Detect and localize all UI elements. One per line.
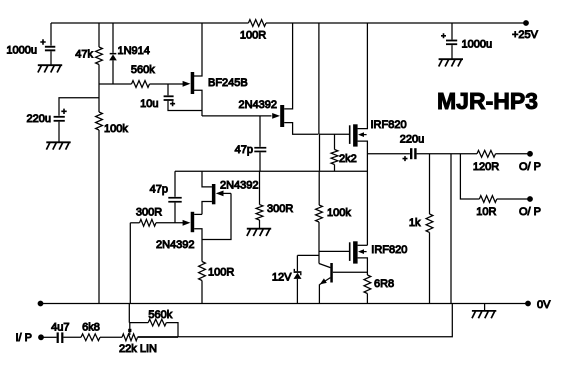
- polarity + (1000u left): [40, 39, 45, 44]
- wire 100k right to gate node: [318, 222, 320, 264]
- node pot wiper junction: [128, 329, 131, 332]
- node 0V left terminal: [38, 301, 44, 307]
- wire 0V rail: [41, 303, 529, 305]
- svg-text:0V: 0V: [537, 299, 551, 311]
- wire 300R to C gate: [156, 222, 183, 224]
- wire 560k to BF245B gate: [150, 83, 184, 85]
- wire bootstrap to B gate: [202, 193, 231, 239]
- label 300R (gate): [136, 207, 162, 219]
- wire branch to 220u: [59, 98, 99, 116]
- label 12V: [272, 271, 292, 283]
- wire wiper to 560k: [129, 322, 148, 324]
- wire IRF820 lower source lead: [358, 258, 368, 275]
- label IRF820 upper: [371, 119, 407, 131]
- capacitor 47p (miller) plates: [254, 147, 266, 152]
- ground (below left 1000u): [38, 65, 62, 72]
- label 2N4392 A: [238, 99, 277, 111]
- label 1000u (right): [462, 38, 493, 50]
- svg-text:6k8: 6k8: [82, 321, 100, 333]
- capacitor 47p (cascode) plates: [168, 197, 181, 203]
- svg-text:47p: 47p: [235, 144, 253, 156]
- resistor 100R (supply rail): [248, 20, 266, 27]
- diode 1N914: [109, 53, 117, 61]
- label 22k LIN: [119, 343, 157, 355]
- wire 2N4392 C drain lead: [194, 213, 202, 215]
- node +25V terminal: [523, 20, 529, 26]
- wire 120R to output terminal: [496, 153, 531, 155]
- svg-text:10R: 10R: [476, 206, 496, 218]
- resistor 560k (bias): [132, 81, 150, 88]
- wire Q1 emitter to 0V: [318, 284, 320, 303]
- resistor 6R8: [364, 275, 371, 294]
- capacitor 1000u (right) plates: [446, 40, 457, 46]
- jfet 2N4392 B: [212, 184, 216, 204]
- polarity + (10u): [170, 101, 175, 106]
- label I/P: [16, 332, 33, 344]
- mosfet IRF820 lower: [349, 241, 358, 263]
- jfet 2N4392 A: [280, 105, 284, 127]
- wire 300R left: [130, 222, 139, 224]
- label 100R (source): [208, 266, 234, 278]
- pin gate arrow 2N4392 A: [272, 113, 280, 119]
- pin emitter arrow Q1: [320, 278, 327, 284]
- wire 6R8 bottom: [366, 294, 368, 304]
- label 1k: [409, 217, 421, 229]
- capacitor 47p (cascode) bottom wire: [174, 203, 176, 223]
- wire 2N4392 B gate wire: [223, 192, 232, 194]
- label O/P upper: [519, 161, 541, 173]
- polarity + (1000u right): [441, 33, 446, 38]
- label 4u7: [51, 321, 69, 333]
- label 120R: [473, 161, 499, 173]
- wire input to 4u7: [41, 336, 57, 338]
- wire Q1 collector: [319, 264, 330, 268]
- wire ground stub: [484, 304, 486, 311]
- svg-text:47p: 47p: [150, 183, 168, 195]
- resistor 100R (source): [199, 262, 206, 281]
- jfet 2N4392 C: [191, 212, 195, 232]
- capacitor 10u plates: [164, 95, 174, 101]
- svg-text:I/ P: I/ P: [16, 332, 33, 344]
- svg-text:220u: 220u: [27, 113, 51, 125]
- wire IRF820 upper drain lead: [358, 23, 368, 129]
- potentiometer 22k LIN track: [122, 334, 138, 341]
- wire 560k to pot end: [166, 323, 178, 337]
- wire BF245B source to 2N4392 gate: [202, 115, 272, 117]
- wire Q1 emitter: [320, 278, 331, 285]
- svg-text:2k2: 2k2: [339, 153, 357, 165]
- svg-text:300R: 300R: [136, 207, 162, 219]
- capacitor 4u7 plates: [57, 332, 64, 343]
- pin body arrow IRF820 upper: [358, 132, 367, 137]
- label 1000u (left): [6, 45, 37, 57]
- label BF245B: [208, 77, 248, 89]
- resistor 1k: [426, 214, 433, 232]
- wire 2N4392 A source lead: [284, 123, 318, 135]
- wire 220u to 120R: [417, 153, 477, 155]
- polarity + (220u output): [403, 156, 408, 161]
- pin gate arrow 2N4392 C: [183, 220, 191, 226]
- wire 4u7 to 6k8: [63, 336, 81, 338]
- svg-text:100k: 100k: [327, 207, 351, 219]
- svg-text:22k LIN: 22k LIN: [119, 343, 157, 355]
- wire output node rail: [175, 170, 367, 172]
- resistor 300R (ground ref): [256, 205, 263, 220]
- wire 300R vert bottom: [259, 220, 261, 229]
- wire 1000u left cap to ground: [50, 51, 52, 65]
- label 10u: [140, 98, 158, 110]
- label O/P lower: [519, 206, 541, 218]
- node 0V right terminal: [525, 301, 531, 307]
- capacitor 47p (miller) top wire: [259, 116, 261, 147]
- svg-text:100k: 100k: [104, 123, 128, 135]
- svg-text:120R: 120R: [473, 161, 499, 173]
- wire pot wiper riser to 300R: [129, 223, 130, 323]
- label 10R: [476, 206, 496, 218]
- label title MJR-HP3: [437, 88, 538, 114]
- svg-text:O/ P: O/ P: [519, 161, 541, 173]
- capacitor 220u (left) plates: [54, 116, 65, 122]
- resistor 6k8: [81, 334, 100, 341]
- wire 1000u right top: [451, 23, 453, 40]
- wire 100R mid top: [201, 240, 203, 262]
- wire 47k bottom / node A: [98, 65, 100, 113]
- wire gate wire to IRF820 upper: [319, 133, 349, 135]
- wire 2N4392 B source lead: [202, 202, 212, 215]
- label 0V: [537, 299, 551, 311]
- ground (below right 1000u): [439, 59, 463, 66]
- wire zener top: [297, 255, 319, 271]
- svg-text:+25V: +25V: [512, 29, 539, 41]
- svg-text:100R: 100R: [208, 266, 234, 278]
- svg-text:2N4392: 2N4392: [156, 239, 195, 251]
- polarity + (220u left): [61, 109, 66, 114]
- svg-text:12V: 12V: [272, 271, 292, 283]
- ground (below 300R): [247, 229, 271, 236]
- svg-text:2N4392: 2N4392: [220, 180, 259, 192]
- svg-text:MJR-HP3: MJR-HP3: [437, 88, 538, 114]
- wire Q1 base to 6R8 top: [333, 271, 368, 273]
- label 100k (right): [327, 207, 351, 219]
- resistor 47k: [96, 47, 103, 65]
- wire feedback from output: [138, 154, 453, 337]
- mosfet IRF820 upper: [349, 124, 358, 146]
- svg-text:560k: 560k: [131, 64, 155, 76]
- wire 1000u right bottom: [451, 45, 453, 59]
- wire BF245B source lead: [194, 90, 202, 116]
- label 220u (left): [27, 113, 51, 125]
- wire branch to 10R: [460, 154, 479, 199]
- label +25V: [512, 29, 539, 41]
- wire 10u bottom to source: [168, 101, 202, 111]
- wire node A to 560k: [99, 83, 132, 85]
- svg-text:1000u: 1000u: [462, 38, 493, 50]
- wire 47k top: [98, 23, 100, 47]
- label 300R (ground ref): [267, 203, 293, 215]
- wire 1000u left cap to rail: [50, 23, 52, 46]
- wire zener bottom: [296, 279, 298, 304]
- capacitor 1000u (left) plates: [45, 46, 55, 52]
- wire IRF820 upper source lead: [358, 141, 368, 245]
- svg-text:220u: 220u: [400, 134, 424, 146]
- svg-text:2N4392: 2N4392: [238, 99, 277, 111]
- svg-text:IRF820: IRF820: [371, 244, 407, 256]
- label 47p (cascode): [150, 183, 168, 195]
- wire 100R mid bottom: [201, 281, 203, 304]
- svg-text:4u7: 4u7: [51, 321, 69, 333]
- diode zener 12V: [294, 269, 302, 279]
- transistor Q1 base bar: [330, 263, 333, 283]
- pin gate arrow 2N4392 B: [216, 191, 224, 197]
- resistor 2k2: [331, 150, 338, 165]
- svg-text:560k: 560k: [148, 309, 172, 321]
- label 560k (bias): [131, 64, 155, 76]
- jfet BF245B: [191, 72, 195, 94]
- wire 100k right pull-up from rail: [318, 23, 321, 205]
- ground (0V rail): [472, 311, 496, 318]
- wire 2N4392 A drain lead: [284, 23, 292, 109]
- resistor 100k (left): [96, 112, 103, 130]
- wire 2N4392 B drain lead: [202, 171, 212, 187]
- wire BF245B drain lead: [194, 23, 202, 76]
- svg-text:1N914: 1N914: [118, 45, 150, 57]
- capacitor 47p (cascode) top wire: [174, 171, 176, 197]
- label 47k: [75, 49, 93, 61]
- wire 300R vert top: [259, 171, 261, 204]
- ground (below left 220u): [46, 142, 70, 149]
- wire 1k top: [429, 154, 431, 214]
- label 100k (left): [104, 123, 128, 135]
- capacitor 47p (miller) bottom wire: [259, 152, 261, 171]
- svg-text:1000u: 1000u: [6, 45, 37, 57]
- wire 6k8 to pot: [100, 336, 122, 338]
- wire 10R to output terminal: [497, 198, 530, 200]
- label IRF820 lower: [371, 244, 407, 256]
- capacitor 220u (output) plates: [410, 148, 417, 159]
- label 220u (output): [400, 134, 424, 146]
- svg-text:100R: 100R: [240, 29, 266, 41]
- wire 10u top: [167, 84, 169, 95]
- label 2N4392 C: [156, 239, 195, 251]
- wire 1N914 bottom: [112, 60, 114, 84]
- label 6R8: [374, 278, 394, 290]
- svg-text:300R: 300R: [267, 203, 293, 215]
- label 2N4392 B: [220, 180, 259, 192]
- svg-text:1k: 1k: [409, 217, 421, 229]
- label 47p (miller): [235, 144, 253, 156]
- resistor 560k (law-faking): [148, 319, 166, 326]
- node I/P terminal: [38, 334, 44, 340]
- svg-text:10u: 10u: [140, 98, 158, 110]
- wire IRF820 lower gate wire: [319, 250, 349, 252]
- wire 220u left to ground: [58, 122, 60, 143]
- wire 2N4392 C source lead: [194, 229, 202, 240]
- wire pot right to feedback: [138, 336, 179, 338]
- label 2k2: [339, 153, 357, 165]
- wire 2k2 bottom: [334, 165, 336, 172]
- label 100R (supply): [240, 29, 266, 41]
- node O/P lower terminal: [527, 196, 533, 202]
- resistor 120R: [477, 150, 496, 157]
- wire IRF820 lower drain lead: [358, 244, 368, 246]
- wire output to 220u: [367, 153, 410, 155]
- pin body arrow IRF820 lower: [358, 249, 367, 254]
- label 1N914: [118, 45, 150, 57]
- resistor 100k (right): [316, 205, 323, 222]
- wire 2k2 top: [334, 134, 336, 149]
- resistor 10R: [479, 196, 496, 203]
- svg-text:47k: 47k: [75, 49, 93, 61]
- pin gate arrow BF245B: [183, 81, 191, 87]
- wire pot wiper: [129, 323, 131, 335]
- node O/P upper terminal: [527, 151, 533, 157]
- svg-text:O/ P: O/ P: [519, 206, 541, 218]
- resistor 300R (gate): [140, 219, 157, 226]
- wire 1k bottom: [429, 232, 431, 303]
- svg-text:BF245B: BF245B: [208, 77, 248, 89]
- label 6k8: [82, 321, 100, 333]
- svg-text:6R8: 6R8: [374, 278, 394, 290]
- svg-text:IRF820: IRF820: [371, 119, 407, 131]
- wire 100k left to 0V rail: [98, 130, 100, 304]
- wire +25V top rail: [51, 22, 526, 24]
- label 560k (law-faking): [148, 309, 172, 321]
- wire 1N914 top: [112, 23, 114, 53]
